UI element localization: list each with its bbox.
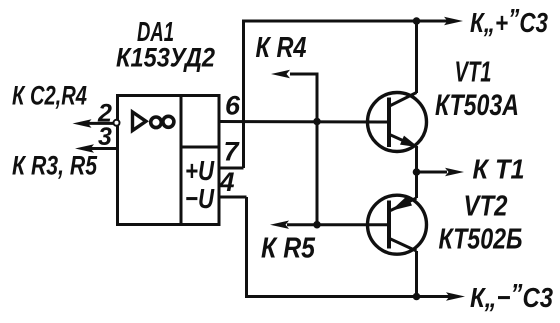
node junction plus rail / VT1 collector xyxy=(413,17,421,25)
arrow to R4 xyxy=(271,70,290,78)
svg-text:КТ503А: КТ503А xyxy=(435,89,519,122)
arrow to C2,R4 xyxy=(73,119,92,127)
inversion bubble pin 2 xyxy=(114,120,120,126)
transistor Q2 VT2 circle xyxy=(368,195,427,254)
svg-text:К R4: К R4 xyxy=(256,32,307,64)
svg-text:VT2: VT2 xyxy=(464,191,508,223)
svg-text:+U: +U xyxy=(185,155,215,186)
node junction emitters xyxy=(413,168,421,176)
svg-text:К„+”С3: К„+”С3 xyxy=(470,3,548,38)
svg-text:К153УД2: К153УД2 xyxy=(116,43,215,73)
wire emitters to K T1 xyxy=(417,171,448,174)
transistor VT2 base bar xyxy=(387,201,391,249)
svg-text:7: 7 xyxy=(224,137,241,167)
wire K R4 branch vertical xyxy=(316,74,319,225)
transistor VT1 collector xyxy=(390,20,417,107)
transistor VT1 emitter with arrow xyxy=(390,135,419,173)
wire pin 2 to K C2,R4 xyxy=(88,122,114,125)
wire pin 6 output to transistor bases xyxy=(219,120,389,124)
svg-text:К Т1: К Т1 xyxy=(473,154,525,185)
svg-text:КТ502Б: КТ502Б xyxy=(439,224,523,256)
wire pin 4 vertical to minus rail xyxy=(245,197,248,298)
arrow to "-" C3 xyxy=(446,292,465,300)
arrow to T1 xyxy=(445,168,464,176)
op-amp infinity gain symbol xyxy=(151,116,174,127)
op-amp amplifier triangle symbol xyxy=(133,112,147,131)
arrow to R3,R5 xyxy=(75,144,94,152)
wire pin 7 vertical to plus rail xyxy=(242,20,245,169)
wire VT2 base line / K R5 xyxy=(287,223,389,226)
wire pin 4 stub xyxy=(219,196,247,199)
svg-text:−U: −U xyxy=(185,183,215,214)
transistor Q1 VT1 circle xyxy=(368,93,427,152)
svg-text:3: 3 xyxy=(98,123,112,151)
svg-text:К R3, R5: К R3, R5 xyxy=(12,151,98,181)
node junction minus rail / VT2 collector xyxy=(413,293,421,301)
node junction VT2 base xyxy=(313,221,321,229)
wire pin 3 to K R3,R5 xyxy=(90,147,117,150)
transistor VT2 emitter with arrow xyxy=(391,172,417,211)
transistor VT2 collector xyxy=(390,239,417,297)
wire K R4 horizontal xyxy=(290,73,319,76)
wire pin 7 stub xyxy=(219,167,244,170)
arrow to R5 xyxy=(270,221,289,229)
svg-text:VT1: VT1 xyxy=(455,57,492,89)
svg-text:6: 6 xyxy=(225,91,241,121)
wire plus rail top xyxy=(242,20,449,23)
transistor VT1 base bar xyxy=(387,98,391,148)
op-amp U1 DA1 box xyxy=(118,96,220,225)
svg-text:К„−”С3: К„−”С3 xyxy=(470,278,553,313)
node junction pin6/bases xyxy=(313,118,321,126)
arrow to "+" C3 xyxy=(444,17,463,25)
wire minus rail bottom xyxy=(245,295,451,298)
svg-text:4: 4 xyxy=(219,167,235,197)
svg-text:К R5: К R5 xyxy=(261,233,316,265)
svg-text:К С2,R4: К С2,R4 xyxy=(12,81,87,111)
